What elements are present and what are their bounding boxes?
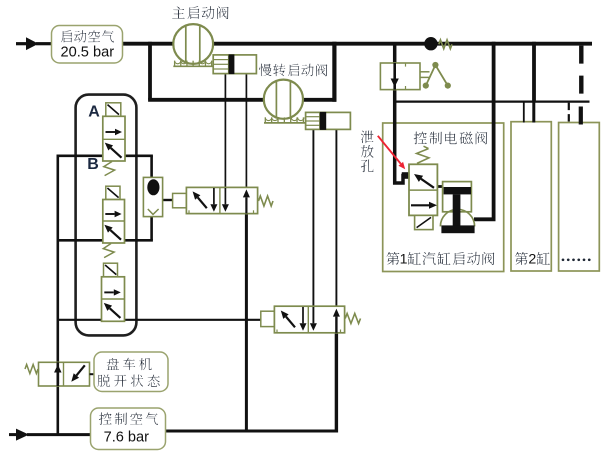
wire: main valve right outlet down [245, 74, 247, 187]
label: main starting valve [172, 6, 228, 19]
wire: cylinder-2 main air drop [532, 42, 536, 102]
cylinder 2 box [511, 122, 551, 271]
wire: slow valve left outlet down [312, 129, 314, 331]
wire: valve A output line [57, 155, 153, 158]
label: cylinder 2 [515, 252, 528, 265]
wire: solenoid valve to cylinder valve [437, 185, 444, 188]
control solenoid valve body [409, 164, 437, 215]
wire: elbow into cylinder valve [474, 217, 496, 221]
main starting valve body [213, 55, 256, 74]
node: control air inlet arrow [16, 429, 29, 441]
shuttle seat [148, 209, 159, 214]
main starting valve circle [173, 24, 213, 64]
main starting valve seat comb [173, 65, 212, 67]
wire: main starting air bus (top) [123, 42, 593, 46]
svg-text:B: B [87, 156, 99, 173]
label box: control air [91, 408, 166, 450]
wire: shuttle valve feed (vertical) [150, 156, 153, 241]
interlock valve through-line [393, 63, 396, 90]
label: control air [99, 413, 158, 425]
wire: control air distribution line [395, 100, 590, 102]
lower pilot valve arrows [286, 317, 295, 328]
interlock linkage [420, 71, 430, 73]
solenoid valve spring (top) [417, 149, 429, 164]
label: control solenoid valve [414, 132, 488, 145]
svg-text:2: 2 [528, 251, 536, 267]
main pilot valve pilot box [173, 193, 187, 207]
slow turning valve body [306, 112, 351, 129]
svg-text:1: 1 [400, 251, 408, 267]
wire: valve C output / lower pilot line [57, 319, 262, 321]
valve A pilot [106, 103, 121, 117]
wire: lower pilot valve output down [335, 333, 338, 433]
label: continuation dots [562, 258, 565, 261]
label: turning gear [107, 358, 152, 370]
wire: drop to slow-turn bus [148, 42, 152, 100]
main pilot valve body [186, 187, 257, 213]
wire: control air inlet stub [9, 433, 18, 436]
wire: control air line right segment [164, 430, 338, 433]
valve B pilot [106, 186, 120, 199]
valve A body [103, 116, 125, 161]
wire: shuttle to pilot connector [162, 199, 173, 201]
pilot-operated check (dot) on main bus [424, 37, 437, 50]
cylinder valve piston (I shape) [444, 187, 471, 194]
wire: drop to interlock valve and solenoid valve [395, 44, 410, 183]
valve C pilot [104, 263, 118, 277]
wire: continuation main air drop [579, 107, 583, 125]
label: slow turning starting valve [259, 64, 327, 76]
wire: left control riser [56, 156, 59, 435]
svg-text:A: A [88, 104, 100, 121]
wire: main valve left outlet down [224, 74, 226, 212]
valve B spring [103, 244, 114, 258]
valve B body [103, 200, 125, 244]
control group enclosure [76, 95, 137, 336]
svg-text:20.5 bar: 20.5 bar [61, 45, 115, 61]
cylinder 1 starting valve box [383, 123, 504, 272]
spring of dot valve [439, 40, 452, 49]
label: cylinder 1 starting valve [386, 252, 399, 265]
wire: dashed continuation drop (top) [579, 46, 583, 95]
turning gear valve spring [25, 365, 38, 374]
node: inlet arrow [26, 37, 39, 50]
label box: turning gear state [94, 352, 168, 392]
vent hole pointer (red) [378, 136, 401, 164]
wire: slow valve right outlet down [335, 129, 337, 306]
label: starting air [61, 30, 114, 42]
wire: valve B output line [57, 239, 153, 242]
wire: right elbow of slow-turn bus [332, 42, 336, 102]
slow turning valve spool bar [320, 112, 326, 130]
slow turning valve circle [264, 80, 303, 119]
node: solenoid feed nub [402, 172, 410, 179]
shuttle valve body [143, 177, 162, 216]
solenoid coil box [415, 215, 433, 229]
wire: pilot valve output down to control air line [245, 213, 248, 431]
slow turning valve seat comb [264, 122, 305, 124]
main starting valve spool bar [229, 54, 235, 74]
wire: slow-turn bus [148, 98, 336, 102]
turning-gear interlock valve body [380, 63, 420, 90]
shuttle ball [147, 179, 159, 195]
valve C body [102, 277, 125, 322]
cylinder valve dome [440, 209, 474, 226]
lower pilot valve body [274, 306, 344, 333]
turning gear valve body [39, 362, 90, 386]
main pilot valve arrows [198, 198, 207, 209]
label box: starting air [52, 26, 123, 64]
cylinder valve outline [443, 182, 472, 212]
valve A spring [104, 162, 115, 176]
wire: cylinder-1 main air drop [492, 42, 496, 220]
lower pilot valve spring [345, 314, 360, 324]
svg-text:7.6 bar: 7.6 bar [104, 429, 150, 445]
main pilot valve spring [259, 196, 274, 206]
wire: cylinder-2 control drop [523, 102, 525, 123]
continuation cylinder box [559, 123, 600, 272]
wire: dashed continuation control drop [568, 103, 570, 122]
turning gear valve through-line [56, 362, 59, 386]
connector to label [90, 373, 95, 375]
lower pilot valve pilot box [261, 311, 275, 326]
solenoid valve arrows [421, 179, 434, 188]
wire: starting air inlet stub [16, 42, 28, 45]
label: vent hole (vertical) [361, 131, 374, 173]
